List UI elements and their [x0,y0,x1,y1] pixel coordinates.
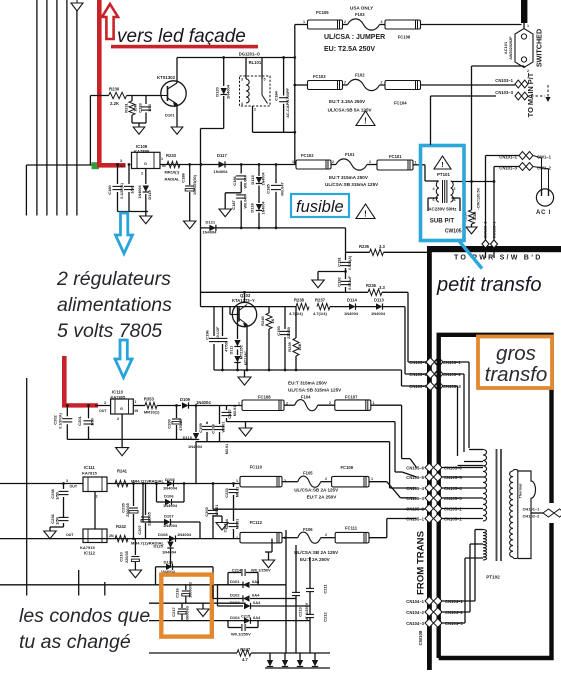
svg-text:R241: R241 [117,469,128,474]
svg-text:USA ONLY: USA ONLY [350,6,373,11]
wire [463,374,465,452]
svg-text:EU:T 3.15A 250V: EU:T 3.15A 250V [329,99,366,104]
wire [400,497,416,499]
svg-text:10000/63: 10000/63 [189,582,193,598]
fuse F101 [336,159,367,170]
capacitor C183 [145,96,147,105]
svg-text:IC112: IC112 [84,551,96,556]
svg-text:F102: F102 [355,73,365,78]
wire [318,404,335,406]
svg-text:FC101: FC101 [389,154,402,159]
wire Q103 collector [244,292,246,303]
wire bus to CN105-2 [213,508,425,510]
svg-text:OUT: OUT [70,485,78,489]
svg-text:M3.047: M3.047 [280,182,285,196]
svg-text:W0.1/250V: W0.1/250V [251,567,271,572]
diode D126 [156,566,167,568]
svg-text:2: 2 [329,401,331,405]
wire [371,404,402,406]
wire [170,548,172,567]
wire [196,441,390,443]
wire AC101 return [472,65,525,67]
resistor R238 [296,303,309,309]
wire [404,370,406,374]
fuse holder FC103 [308,81,343,90]
svg-text:5 volts 7805: 5 volts 7805 [57,320,162,342]
wire main rail IC111 row [0,483,240,485]
svg-text:C233: C233 [224,487,229,497]
svg-text:CH101–1: CH101–1 [523,507,541,512]
capacitor C214 [227,573,229,579]
annotation cyan down-arrow 2 [115,340,132,378]
annotation red wire vers led facade (vertical) [97,0,102,168]
svg-text:petit transfo: petit transfo [436,274,542,296]
capacitor C197 [226,406,228,411]
svg-text:3.3M: 3.3M [472,211,477,221]
svg-text:SUB P/T: SUB P/T [430,218,455,225]
diode D118 [258,186,260,204]
fuse holder FC108 [242,400,284,411]
capacitor C207 [145,484,147,516]
svg-text:D110: D110 [183,435,193,440]
wire down to CW103-2 [485,156,487,245]
svg-text:6A4: 6A4 [252,593,260,598]
svg-text:UL/CSA:SB 315mA 125V: UL/CSA:SB 315mA 125V [288,387,342,392]
relay RL101 [240,76,271,106]
svg-text:220/35: 220/35 [125,551,129,563]
svg-text:C207: C207 [137,524,142,534]
svg-text:D106: D106 [164,493,174,498]
svg-text:G: G [120,407,123,411]
fuse F103 [348,19,380,30]
svg-text:1: 1 [371,477,373,481]
diode (bridge, bottom edge) [269,653,271,660]
capacitor C211 [306,589,314,591]
wire R235 rail [346,251,370,253]
svg-text:2200/35: 2200/35 [147,512,151,526]
wire R247 rail [149,652,237,654]
fuse holder FC112 [240,532,282,543]
svg-text:!: ! [364,117,367,126]
svg-text:FC112: FC112 [250,520,263,525]
svg-text:1/50: 1/50 [147,103,152,112]
wire [212,567,214,585]
wire block bottom rail [214,369,402,371]
svg-text:C196: C196 [205,329,210,339]
svg-text:R230: R230 [109,87,120,92]
svg-text:MT218C: MT218C [244,350,248,365]
diode D106 [157,501,166,503]
resistor R247 [237,650,251,656]
svg-text:D109: D109 [180,397,191,402]
svg-text:PT101: PT101 [437,172,450,177]
svg-text:MR10(1): MR10(1) [144,410,160,415]
svg-text:FC109: FC109 [341,465,354,470]
svg-text:CW103–2: CW103–2 [484,222,488,239]
connector CW103-1 [491,240,498,248]
svg-text:M0.01: M0.01 [236,519,240,530]
svg-text:4.7(1/4): 4.7(1/4) [313,311,327,316]
wire [369,537,387,539]
wire [133,405,145,407]
wire [380,24,386,26]
svg-text:FC105: FC105 [316,10,329,15]
svg-text:2 régulateurs: 2 régulateurs [56,268,171,290]
svg-text:AC I: AC I [536,210,551,216]
wire down toward CN105-4 [389,442,391,488]
svg-text:D101: D101 [165,113,175,118]
wire CN104-3 feed [441,622,465,624]
wire [227,421,396,423]
svg-text:CH102–2: CH102–2 [523,514,541,519]
capacitor C210 [134,539,136,555]
wire rail upper [201,291,369,293]
svg-text:1N4004: 1N4004 [371,311,386,316]
svg-text:220/50: 220/50 [287,327,291,339]
ground [184,221,196,229]
svg-text:alimentations: alimentations [57,294,172,316]
wire [468,362,470,448]
svg-text:FROM TRANS: FROM TRANS [416,530,427,595]
ground [140,216,152,224]
ground [219,209,231,217]
wire ground stem [244,370,246,377]
svg-text:les condos que: les condos que [19,605,150,627]
annotation red up-arrow [102,4,118,39]
svg-text:2.2K: 2.2K [110,101,120,106]
wire IC110 block bottom rail [67,438,196,440]
wire stub [493,248,495,258]
svg-text:0.022(A): 0.022(A) [348,255,352,270]
wire [523,23,525,30]
svg-text:FC107: FC107 [345,394,358,399]
svg-text:0.1/2F: 0.1/2F [216,326,220,337]
svg-text:M3.01: M3.01 [225,444,229,455]
svg-text:1K: 1K [270,318,275,323]
svg-text:C198: C198 [211,423,216,433]
svg-text:EU: T2.5A 250V: EU: T2.5A 250V [324,46,375,53]
wire winding hook 3 [458,465,484,467]
svg-text:OUT: OUT [66,533,74,537]
svg-text:KA7805: KA7805 [134,149,150,154]
wire lower rail [201,227,346,229]
svg-text:C197: C197 [227,408,232,418]
wire Q101 collector to top rail [176,58,178,84]
svg-text:1N4004: 1N4004 [214,169,229,174]
svg-text:0.022uF: 0.022uF [348,275,352,289]
svg-text:RADIAL: RADIAL [165,177,181,182]
wire [401,382,403,386]
wire [330,306,349,308]
svg-text:R242: R242 [116,524,127,529]
svg-text:EU:T 2A 250V: EU:T 2A 250V [300,557,331,562]
svg-text:2: 2 [96,495,98,499]
IC U-IC109 KA7805 [132,152,161,168]
diode D112 [237,350,239,356]
connector CN106-1 (over bar) [426,358,443,367]
capacitor C200 [176,406,178,419]
svg-text:EU:T 315mA 250V: EU:T 315mA 250V [288,380,328,385]
svg-text:F103: F103 [355,12,365,17]
capacitor C216 [185,585,187,590]
connector CN104-1 [425,597,442,606]
connector CN106-2 [426,370,442,379]
svg-text:2: 2 [381,81,383,85]
fuse F106 [298,532,321,543]
diode D103 [218,605,244,607]
wire [356,306,376,308]
diode D117 [219,161,226,167]
connector CN105-1 [425,514,442,523]
wire left bus [26,378,28,596]
svg-text:CW108: CW108 [418,630,423,645]
fuse holder FC110 [240,476,282,487]
diode D111 [237,307,239,339]
svg-text:W0.047: W0.047 [243,175,247,188]
svg-text:CN104–1: CN104–1 [406,599,424,604]
svg-text:D102: D102 [230,593,240,598]
wire CN106-3 to PT102 [442,385,458,387]
svg-text:C204: C204 [224,523,228,533]
svg-text:FC106: FC106 [398,35,411,40]
svg-text:2: 2 [117,417,119,421]
svg-text:D104: D104 [230,615,240,620]
capacitor C236 [59,518,69,520]
transistor Q101 KT01302 [161,81,186,106]
diode (bridge, bottom edge) [284,653,286,660]
svg-text:CW103–1: CW103–1 [493,222,497,239]
transistor Q103 [232,302,256,326]
svg-text:3: 3 [120,159,122,163]
svg-text:R236: R236 [366,283,377,288]
wire relay pin 2 [252,106,254,132]
wire winding hook lower 1 [475,529,483,531]
ground [312,280,324,288]
wire [212,585,214,599]
diode D115 [258,165,260,177]
wire stub [78,570,80,596]
wire [459,198,461,211]
svg-text:!: ! [364,210,367,219]
svg-text:C211: C211 [323,584,328,594]
capacitor C234 [233,509,235,521]
svg-text:2: 2 [454,187,456,191]
svg-text:2N: 2N [109,534,114,538]
annotation red wire (IC110 feed horizontal) [62,403,98,407]
connector CN105-2 [425,504,442,513]
svg-text:C188: C188 [181,172,186,182]
annotation red wire elbow (horizontal) [97,163,126,168]
wire PT101 pin4 feed [424,165,426,181]
wire ground stem [121,439,123,447]
svg-text:1: 1 [373,401,375,405]
wire [224,193,226,209]
wire thermal bypass [518,471,536,559]
capacitor C180 [117,165,119,185]
diode (bridge, bottom edge) [299,653,301,660]
wire diagonal to CN105-3 [387,482,401,498]
wire to switched connector [421,24,522,26]
svg-text:MR10(!): MR10(!) [165,170,180,175]
svg-text:1N4004: 1N4004 [162,550,177,555]
wire [464,558,466,623]
wire CN104-2 feed [441,611,470,613]
fuse F102 [348,79,380,90]
capacitor C196 [213,307,215,336]
wire [321,481,332,483]
svg-text:C191: C191 [336,256,341,266]
wire [295,164,296,166]
fuse holder FC101 [377,160,413,170]
svg-text:FC108: FC108 [258,395,271,400]
svg-text:OUT: OUT [118,164,126,168]
wire [199,522,201,539]
wire winding hook lower 2 [470,543,483,545]
capacitor C187 [240,182,242,193]
wire [457,386,459,456]
wire to R230 [90,95,108,97]
wire bus line 2 [46,0,48,216]
connector CN106-3 (over bar) [426,382,443,391]
svg-text:D108: D108 [158,532,168,537]
svg-text:2: 2 [332,160,334,164]
diode D114 [349,303,356,309]
capacitor C191 [345,252,347,260]
fuse F104 [295,400,318,411]
svg-text:M3.1/250V: M3.1/250V [305,602,309,621]
annotation pointer line (cyan) [460,242,483,269]
svg-text:AW2020202P: AW2020202P [509,36,513,60]
svg-text:UL/CSA:SB 2A 125V: UL/CSA:SB 2A 125V [294,487,339,492]
resistor R237 [317,303,330,309]
resistor R241 [115,480,128,486]
capacitor C201 [88,406,90,419]
enclosure PT102 (thick outline) [439,335,552,658]
wire [405,373,426,375]
annotation red wire (IC110 feed vertical) [62,356,67,405]
wire rail lower [201,306,297,308]
wire [212,484,214,510]
svg-text:D111: D111 [230,346,234,355]
wire main rail IC112 row [0,538,240,540]
wire ground stem [145,212,147,217]
wire stub [104,582,106,596]
wire IC110 pin2 stem [121,414,123,439]
svg-text:1: 1 [527,24,529,28]
svg-text:R237: R237 [315,298,326,303]
svg-text:W0.047: W0.047 [243,195,247,208]
wire [317,272,319,281]
wire Q103 base feed [229,307,231,315]
transformer PT101 [436,181,439,202]
ground [116,448,129,456]
svg-text:C199: C199 [198,422,203,432]
wire [523,66,525,68]
ground [133,127,145,134]
wire bus line 3 [56,0,58,216]
svg-text:transfo: transfo [485,363,548,386]
resistor R353 [145,402,157,408]
svg-text:D126: D126 [164,559,174,564]
svg-text:UL/CSA : JUMPER: UL/CSA : JUMPER [324,34,385,41]
ground [129,570,141,578]
svg-text:1/50: 1/50 [130,185,135,194]
svg-text:PT102: PT102 [486,575,500,580]
diode D101 [218,584,229,586]
svg-text:–CRC120.5K: –CRC120.5K [477,187,481,210]
wire vertical [295,545,297,653]
capacitor C238 [63,484,65,490]
resistor R233 [167,161,180,167]
svg-text:4.7: 4.7 [242,657,248,662]
fuse holder FC111 [335,532,369,543]
ground (condos) [202,603,204,609]
svg-text:2: 2 [254,108,256,112]
svg-text:CN104–2: CN104–2 [406,610,424,615]
svg-text:2: 2 [325,533,327,537]
wire ground branch [225,192,241,194]
svg-text:C193: C193 [276,325,281,335]
svg-text:C187: C187 [231,199,236,209]
svg-text:0.1/2F(A): 0.1/2F(A) [59,412,63,428]
svg-text:1: 1 [135,400,137,404]
svg-text:D115: D115 [250,175,255,185]
bus bar TO PWR S/W BD (horizontal thick) [427,246,561,252]
connector CN105-6 [425,463,442,472]
wire bottom rail 3 [149,620,246,622]
capacitor C192 [345,268,347,279]
wire bottom rail 2 [149,602,246,604]
wire to CN105-4 [390,487,417,489]
wire [157,405,181,407]
wire to CH101 [531,512,545,514]
svg-text:2: 2 [344,20,346,24]
diode D104 [243,620,246,622]
svg-text:IC111: IC111 [84,465,95,470]
ground (aux) [271,539,273,552]
connector CN106-1 [426,358,442,367]
capacitor C217 [181,603,183,608]
svg-text:C201: C201 [77,415,82,425]
connector CN105-4 [425,484,442,493]
wire bus line 5 [76,11,78,216]
wire to CN103 [421,84,516,86]
wire bus line 6 [25,165,27,216]
capacitor C212 [306,615,314,617]
wire ground stem [245,422,247,428]
transformer PT102 secondary winding (right) [510,471,513,557]
svg-text:6A4: 6A4 [252,579,260,584]
wire long vertical [471,66,473,182]
wire vertical junction of fuse rows [294,25,296,165]
IC U-IC110 KA7805 [111,399,134,414]
wire main rail IC109 row [160,164,295,166]
diode D105 [167,480,174,486]
svg-text:W0.01: W0.01 [215,505,219,516]
connector CH101 [543,509,561,517]
wire ground stem [49,527,51,531]
wire to board edge [384,251,428,253]
svg-text:W0.1/250V: W0.1/250V [231,631,251,636]
capacitor C185 [275,165,277,184]
wire Q101 emitter [176,104,178,123]
wire ground stem [176,123,178,127]
svg-text:RL101: RL101 [249,60,262,65]
wire [156,484,158,503]
svg-text:3: 3 [241,78,243,82]
wire [383,306,405,308]
wire CN101-1 feed [486,155,520,157]
